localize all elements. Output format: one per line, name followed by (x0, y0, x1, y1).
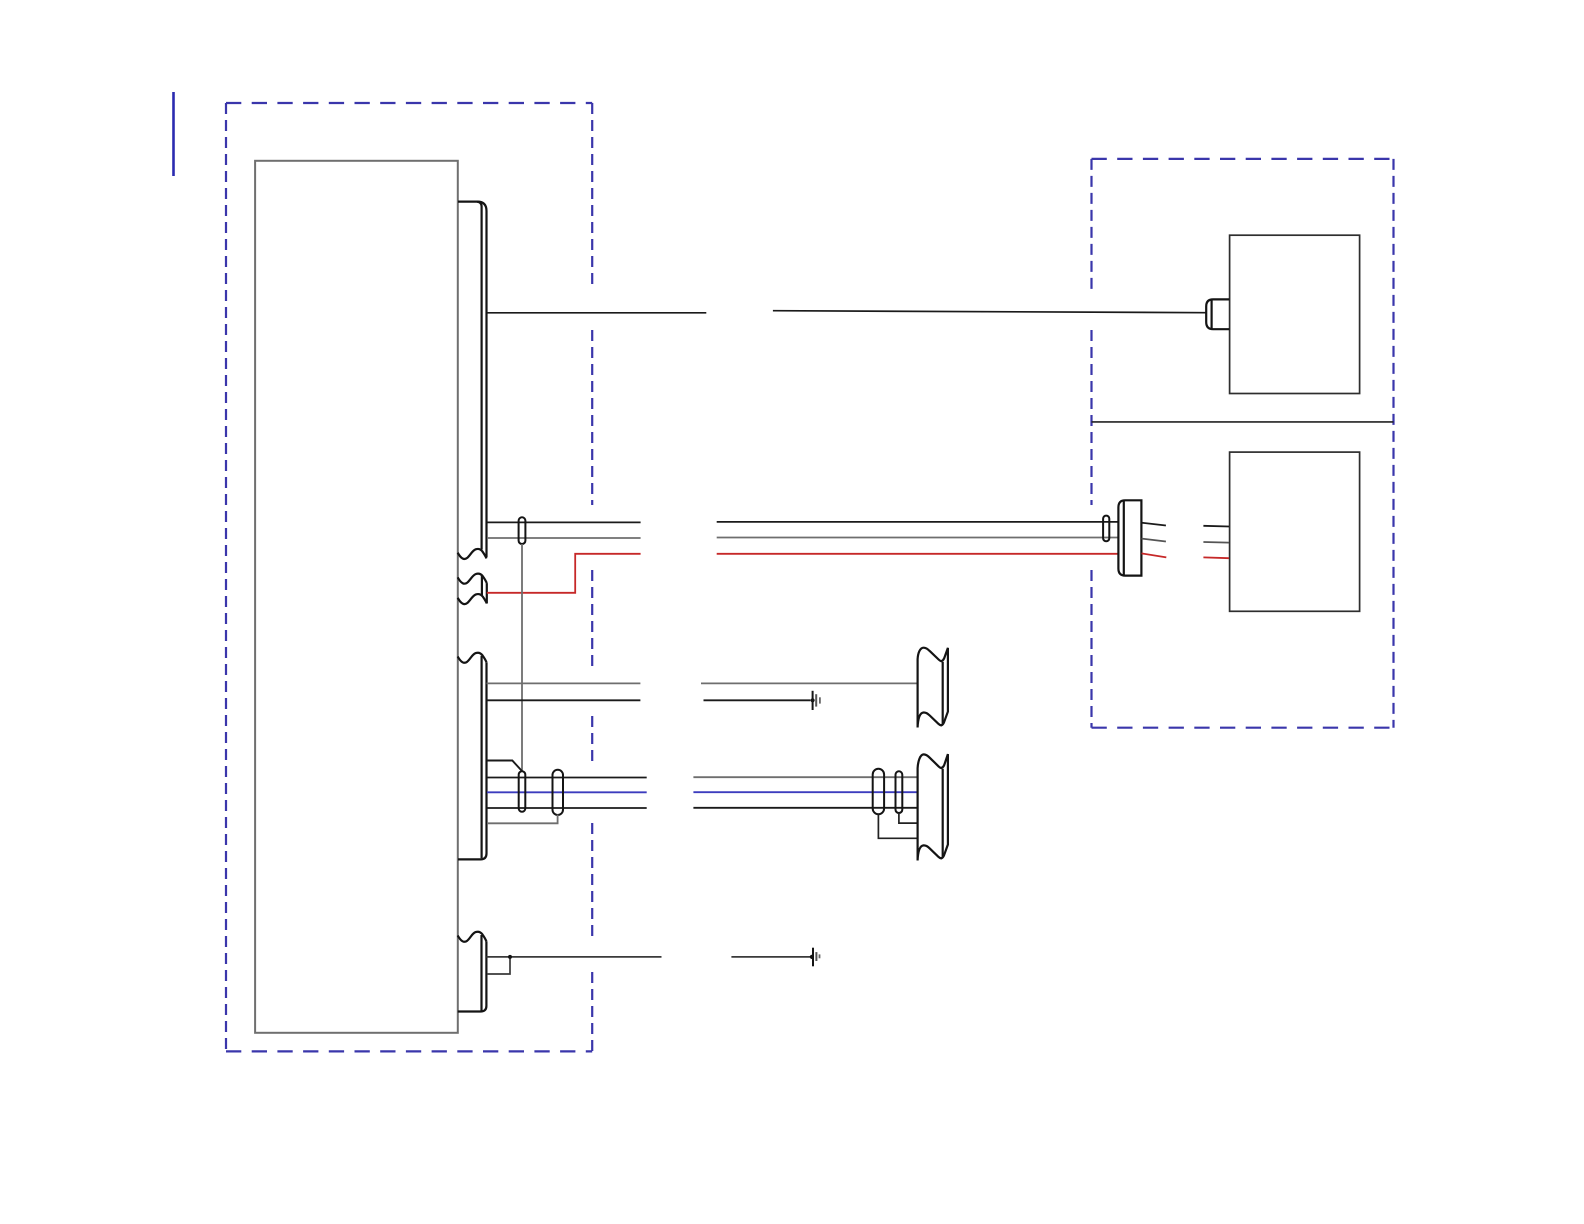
shield drain L (oval D to BR2) (899, 813, 918, 823)
wire W5 (black wire of twisted pair, ECU side) (487, 777, 647, 779)
ground G2 (body ground symbol) (810, 948, 820, 967)
wire W5 (gray wire of twisted pair, harness side to BR2) (693, 776, 917, 778)
wire W10 (ECU pins to ground G2) (486, 957, 811, 974)
fan wire black (C1 to gap) (1142, 523, 1166, 526)
shield oval D (narrow, right) (896, 771, 903, 813)
stub wire red (into B2) (1203, 556, 1229, 559)
sensor dashed enclosure (right component boundary) (1092, 159, 1394, 728)
ground G1 (body ground symbol) (811, 691, 820, 710)
ECU dashed enclosure (left component boundary) (226, 103, 592, 1051)
break wave 2 (top of stub) (458, 574, 487, 584)
wire W7 (black wire of twisted pair, ECU to BR2) (487, 807, 918, 809)
fan wire gray (C1 to gap) (1142, 539, 1166, 542)
in-line connector C1 (1118, 500, 1141, 575)
stub wire gray (into B2) (1203, 541, 1229, 544)
connector strip stub (red-wire pin housing) (482, 576, 487, 604)
connector strip segment 1 (top pin housing) (458, 202, 487, 557)
break wave 1 (bottom of segment 1) (458, 549, 487, 559)
separator line (between sensor blocks) (1092, 421, 1394, 423)
shield drain L (oval B back to ECU pin) (487, 815, 558, 824)
wire W9 (black wire, ECU to ground G1) (487, 699, 811, 701)
wire W2 (black wire, ECU to in-line connector) (487, 521, 1118, 524)
shield oval A (narrow, left) (519, 771, 526, 812)
shield oval E (before in-line connector C1) (1103, 516, 1109, 542)
shield oval C (wide, right) (873, 769, 884, 814)
wire W1 (top signal wire, ECU pin to sensor plug) (487, 311, 1206, 313)
break wave 5 (top of segment 3) (458, 932, 487, 942)
shield drain L (oval C to BR2) (878, 814, 917, 838)
wire W4 (red wire with jog, stub pin to in-line connector) (487, 554, 1119, 593)
break wave 4 (top of segment 2) (458, 653, 487, 663)
connector strip segment 3 (bottom pin housing) (458, 935, 487, 1012)
harness connector BR2 (five wires) (918, 754, 948, 860)
sensor block B2 (bottom right) (1230, 452, 1360, 611)
fan wire red (C1 to gap) (1142, 553, 1167, 557)
wire W8 (gray wire, ECU to harness connector BR1) (487, 682, 918, 684)
junction dot (W10 pin join) (508, 955, 512, 959)
blue reference tick (page margin mark) (172, 92, 175, 176)
harness connector BR1 (single wire) (918, 648, 948, 728)
plug P1 (on sensor block B1) (1206, 299, 1229, 329)
shield oval F (on wires W2/W3 at ECU side) (519, 517, 526, 544)
shield drain vertical (oval F to oval A) (521, 544, 523, 772)
stub wire black (into B2) (1203, 525, 1229, 528)
pin wire with diagonal (ECU pin to shield oval A) (487, 761, 523, 772)
sensor block B1 (top right) (1230, 235, 1360, 393)
wire W3 (gray wire, ECU to in-line connector) (487, 537, 1118, 540)
wire W6 (blue wire of twisted pair, ECU to BR2) (487, 791, 918, 793)
shield oval B (wide, left) (553, 770, 564, 815)
connector strip segment 2 (middle pin housing) (458, 656, 487, 860)
break wave 3 (bottom of stub) (458, 594, 487, 604)
ECU body (large block) (255, 161, 458, 1033)
